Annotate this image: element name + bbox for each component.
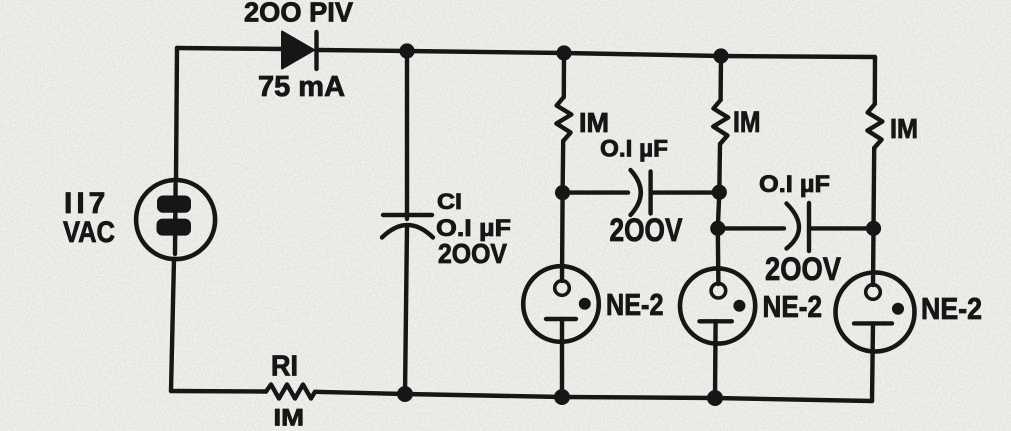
svg-text:IM: IM	[274, 404, 305, 431]
neon lamp DS3 bottom electrode bar	[854, 321, 892, 325]
junction dot cap C3 right	[866, 221, 881, 236]
junction dot cap C3 left	[710, 221, 725, 236]
wire left vertical bottom	[171, 259, 174, 391]
neon lamp DS1 dot	[579, 298, 591, 310]
wire top rail left segment	[177, 48, 282, 49]
neon lamp DS2 bottom electrode bar	[700, 319, 732, 323]
capacitor C1 top plate	[383, 213, 432, 217]
junction dot top rail at C1	[399, 43, 414, 58]
diode D1 cathode bar	[314, 32, 318, 69]
wire capacitor C2 right lead	[652, 190, 719, 194]
neon lamp DS3 dot	[892, 303, 904, 315]
wire column2 top stub	[718, 56, 723, 100]
svg-text:75 mA: 75 mA	[258, 71, 345, 103]
wire column2 mid	[717, 144, 722, 193]
wire bottom rail middle segment	[315, 392, 872, 401]
neon lamp DS2 bottom stem	[713, 321, 718, 398]
capacitor C2 right plate	[648, 172, 652, 214]
neon lamp DS2 top electrode circle	[711, 283, 726, 298]
resistor R1 zigzag	[266, 385, 315, 399]
neon lamp DS2 dot	[733, 300, 745, 312]
junction dot bottom rail at C1	[397, 386, 413, 402]
junction dot top rail at column2	[713, 48, 728, 63]
neon lamp DS1 envelope	[523, 266, 599, 342]
wire C1 column lower	[405, 227, 407, 394]
capacitor C2 curved plate	[631, 170, 641, 215]
capacitor C3 right plate	[807, 203, 811, 251]
neon lamp DS2 envelope	[680, 268, 755, 343]
wire capacitor C2 left lead	[563, 190, 628, 194]
wire lamp1 top lead	[560, 193, 565, 281]
neon lamp DS1 bottom electrode bar	[546, 317, 576, 321]
wire C1 column upper	[405, 51, 409, 219]
wire left vertical top	[176, 48, 177, 180]
neon lamp DS3 top electrode circle	[866, 285, 881, 300]
junction dot cap C2 right	[712, 185, 727, 200]
wire column1 top stub	[562, 53, 567, 97]
svg-text:IM: IM	[733, 106, 761, 139]
capacitor C1 curved plate	[382, 225, 433, 238]
svg-text:NE-2: NE-2	[606, 288, 664, 322]
junction dot bottom rail at lamp2	[707, 390, 723, 406]
svg-text:RI: RI	[271, 351, 298, 383]
AC source V1 bottom plug blade	[157, 219, 192, 236]
resistor R4 zigzag vertical	[867, 104, 882, 148]
wire capacitor C3 left lead	[718, 226, 784, 230]
wire bottom rail left segment	[171, 389, 266, 394]
wire column1 mid	[560, 141, 565, 193]
neon lamp DS3 bottom stem with corner to rail	[872, 323, 873, 401]
wire lamp2 top lead	[716, 228, 721, 284]
diode D1 triangle	[282, 32, 314, 69]
svg-text:O.I µF: O.I µF	[759, 171, 830, 198]
neon lamp DS1 bottom stem	[560, 319, 564, 397]
svg-text:2OO PIV: 2OO PIV	[244, 0, 354, 28]
svg-text:CI: CI	[437, 189, 462, 214]
resistor R2 zigzag vertical	[556, 97, 571, 141]
wire column2 between cap taps	[718, 193, 720, 229]
svg-text:IM: IM	[890, 113, 918, 144]
AC source V1 top plug blade	[157, 196, 191, 213]
wire lamp3 top lead	[871, 228, 876, 285]
junction dot cap C2 left	[555, 185, 570, 200]
neon lamp DS3 envelope	[836, 273, 915, 352]
AC source V1 circle	[136, 180, 215, 259]
AC source V1 inner wire	[173, 184, 178, 254]
svg-text:IM: IM	[579, 107, 609, 138]
capacitor C3 curved plate	[787, 204, 800, 249]
wire capacitor C3 right lead	[811, 226, 874, 230]
svg-text:NE-2: NE-2	[763, 290, 823, 324]
junction dot bottom rail at lamp1	[554, 389, 570, 405]
svg-text:O.I µF: O.I µF	[600, 136, 668, 163]
resistor R3 zigzag vertical	[713, 100, 728, 144]
junction dot top rail at column1	[556, 45, 571, 60]
neon lamp DS1 top electrode circle	[555, 281, 570, 296]
svg-text:2OOV: 2OOV	[610, 212, 683, 248]
wire top rail from diode to right corner	[319, 50, 875, 57]
wire column3 top stub	[873, 57, 878, 104]
svg-text:2OOV: 2OOV	[765, 251, 841, 287]
svg-text:NE-2: NE-2	[921, 292, 982, 326]
svg-text:2OOV: 2OOV	[438, 238, 508, 269]
svg-text:VAC: VAC	[63, 216, 115, 249]
wire column3 mid	[871, 148, 876, 228]
